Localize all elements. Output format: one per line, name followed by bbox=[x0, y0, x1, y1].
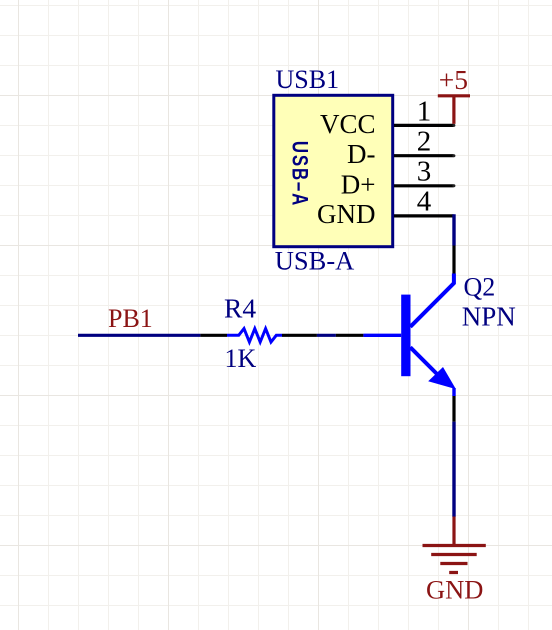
svg-text:USB–A: USB–A bbox=[287, 141, 312, 207]
svg-text:2: 2 bbox=[417, 125, 432, 157]
svg-text:1K: 1K bbox=[225, 344, 257, 373]
svg-text:1: 1 bbox=[417, 95, 432, 127]
svg-text:D+: D+ bbox=[341, 169, 376, 199]
svg-text:R4: R4 bbox=[224, 293, 256, 324]
svg-text:USB-A: USB-A bbox=[275, 246, 355, 276]
svg-text:D-: D- bbox=[347, 139, 376, 169]
svg-text:PB1: PB1 bbox=[108, 304, 153, 333]
svg-text:Q2: Q2 bbox=[464, 273, 496, 302]
svg-text:USB1: USB1 bbox=[276, 65, 340, 94]
svg-text:VCC: VCC bbox=[320, 109, 376, 139]
svg-text:NPN: NPN bbox=[462, 302, 516, 332]
svg-text:GND: GND bbox=[317, 199, 376, 229]
svg-text:4: 4 bbox=[417, 186, 432, 218]
svg-text:GND: GND bbox=[426, 574, 483, 604]
svg-text:3: 3 bbox=[417, 156, 432, 188]
svg-text:+5: +5 bbox=[439, 64, 468, 95]
